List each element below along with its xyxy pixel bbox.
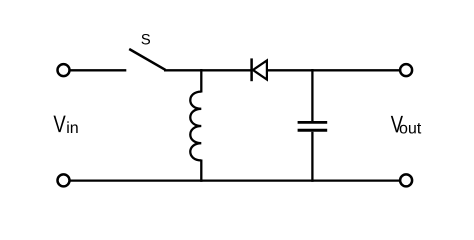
wire: diode to output+ (top rail, with capacitor tap) [267,69,400,71]
inductor (4 loops, bumps to the left) [190,92,201,161]
label: Vout (output voltage) [391,116,421,134]
wire: input+ to switch pole [71,69,127,71]
label: S [142,34,151,44]
terminal: input + (top-left open circle) [58,64,70,76]
capacitor (two horizontal plates) [298,122,328,130]
switch S (open blade) [129,49,165,70]
label: Vin (input voltage) [54,116,78,133]
wire: capacitor top lead [311,69,313,121]
terminal: output + (top-right open circle) [400,64,412,76]
terminal: input - (bottom-left open circle) [58,174,70,186]
wire: capacitor bottom lead [311,132,313,182]
wire: inductor top lead [200,69,202,93]
wire: switch throw to diode anode-bar (top rail, with inductor tap) [164,69,251,71]
wire: bottom return rail input- to output- [71,179,401,181]
terminal: output - (bottom-right open circle) [400,174,412,186]
wire: inductor bottom lead [200,160,202,182]
diode (cathode bar on left, triangle pointing left) [252,58,267,81]
